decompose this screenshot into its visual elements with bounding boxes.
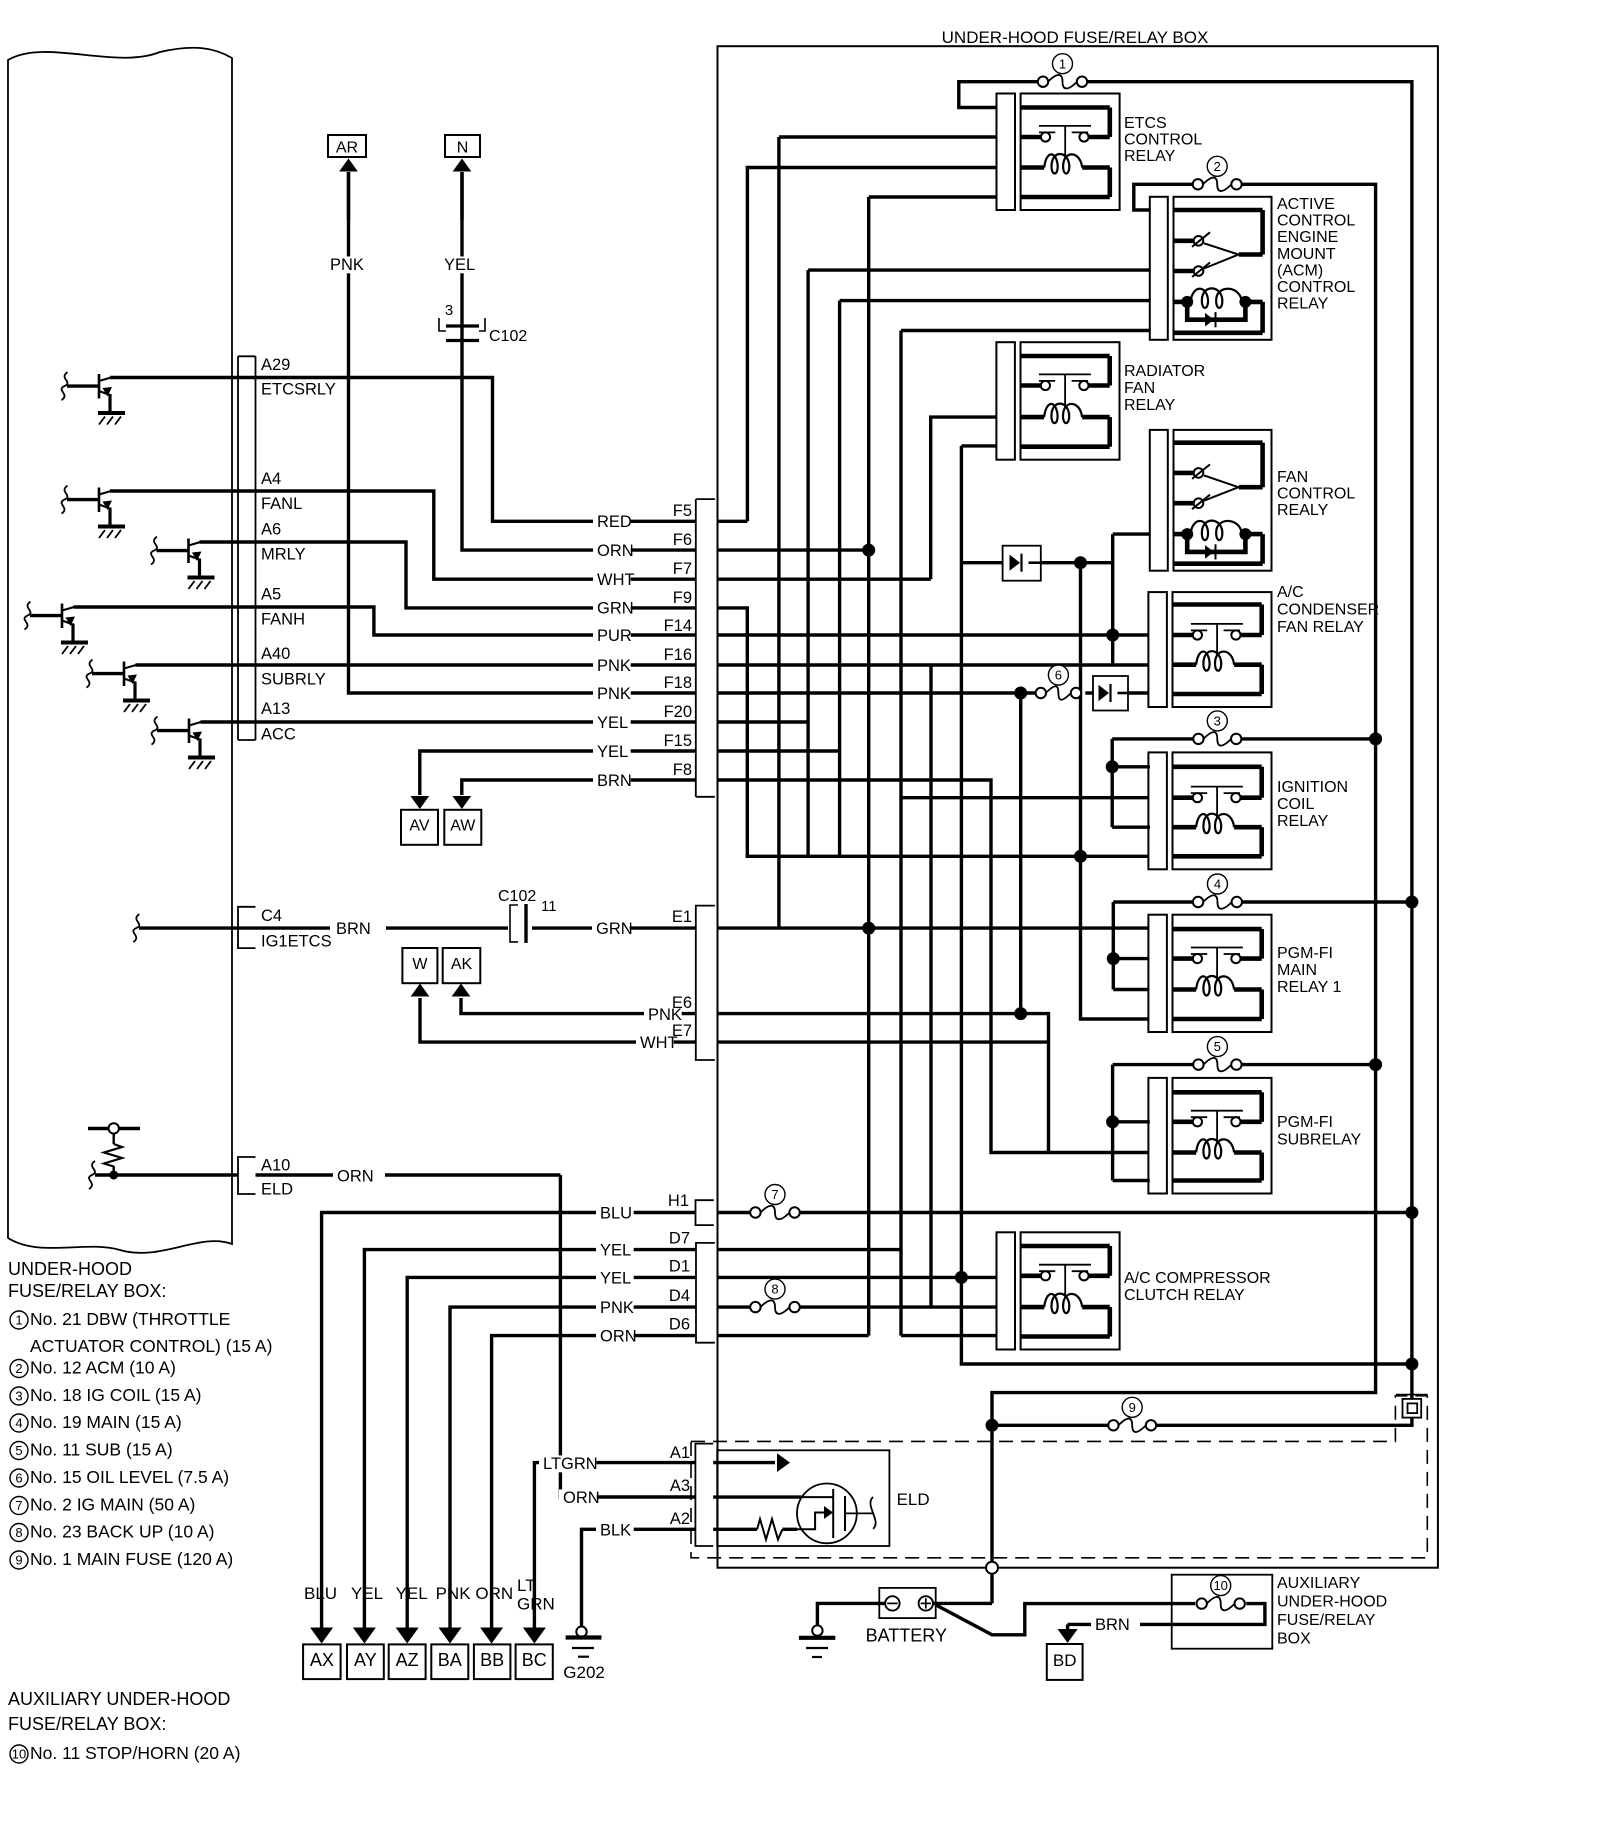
svg-text:BLU: BLU [600, 1205, 632, 1223]
fuse 6 No.15 OIL LEVEL [1046, 686, 1071, 700]
D connector bracket [696, 1243, 715, 1343]
connector BD box [1047, 1644, 1083, 1680]
vertical ACM terminal 4 feed [838, 301, 841, 857]
relay U3 RADIATOR FAN RELAY [996, 342, 1015, 460]
svg-text:BA: BA [438, 1650, 462, 1670]
svg-text:D4: D4 [669, 1287, 690, 1305]
wire colour BRN (BD) [1091, 1616, 1129, 1633]
AUXILIARY UNDER-HOOD FUSE/RELAY BOX [1172, 1575, 1273, 1649]
svg-text:8: 8 [15, 1525, 22, 1540]
wire fuse5 row [1113, 1063, 1194, 1066]
svg-text:A/C COMPRESSOR: A/C COMPRESSOR [1124, 1270, 1271, 1287]
ELD A1 arrow wire [713, 1461, 775, 1464]
svg-text:IGNITION: IGNITION [1277, 779, 1348, 796]
wire F20 into box [718, 720, 809, 723]
diode row from radiator relay [961, 561, 1002, 564]
svg-text:CONTROL: CONTROL [1277, 486, 1355, 503]
wire F18 to fuse 6 and diode [718, 691, 1041, 694]
svg-text:9: 9 [1129, 1400, 1136, 1415]
svg-text:BOX: BOX [1277, 1631, 1311, 1648]
svg-text:PUR: PUR [597, 627, 632, 645]
svg-text:RELAY: RELAY [1277, 296, 1329, 313]
wire D7 to vertical [718, 1248, 902, 1251]
svg-text:RELAY 1: RELAY 1 [1277, 979, 1341, 996]
svg-text:ORN: ORN [475, 1584, 513, 1603]
svg-text:AV: AV [409, 818, 429, 835]
UNDER-HOOD FUSE/RELAY BOX outline [718, 46, 1438, 1568]
ELD A3 wire [713, 1495, 801, 1498]
battery [879, 1588, 935, 1618]
wire F8 to PGM-FI subrelay coil [718, 780, 1149, 1153]
junction [862, 544, 875, 557]
wire colour PNK (AR) [326, 256, 364, 273]
svg-text:ORN: ORN [337, 1168, 374, 1186]
wire A10/ELD ORN to A3 [89, 1161, 95, 1189]
junction [1405, 1358, 1418, 1371]
svg-text:FUSE/RELAY BOX:: FUSE/RELAY BOX: [8, 1281, 166, 1301]
junction [1106, 1115, 1119, 1128]
svg-text:5: 5 [1214, 1039, 1221, 1054]
connector BA box [431, 1644, 468, 1679]
wire colour ORN (A10) [333, 1168, 371, 1185]
svg-text:AUXILIARY: AUXILIARY [1277, 1575, 1361, 1592]
wire D1 to A/C compressor clutch relay contact [718, 1276, 997, 1279]
svg-text:YEL: YEL [597, 743, 628, 761]
wire colour WHT [593, 571, 631, 588]
svg-text:RED: RED [597, 513, 632, 531]
svg-text:FANL: FANL [261, 495, 302, 513]
svg-text:No. 12 ACM (10 A): No. 12 ACM (10 A) [30, 1358, 176, 1378]
svg-text:3: 3 [445, 302, 453, 319]
svg-text:YEL: YEL [600, 1242, 631, 1260]
wire colour BRN [593, 772, 631, 789]
wire E7 to subrelay coil node [718, 1040, 1049, 1043]
ELD sensor resistor circuit [88, 1127, 140, 1130]
svg-text:BRN: BRN [597, 772, 632, 790]
svg-text:10: 10 [12, 1747, 26, 1762]
wire colour ORN [593, 542, 631, 559]
wire colour PNK [593, 685, 631, 702]
fuse 4 No.19 MAIN [1203, 895, 1232, 909]
svg-text:D7: D7 [669, 1230, 690, 1248]
svg-text:YEL: YEL [396, 1584, 428, 1603]
svg-text:CONTROL: CONTROL [1277, 279, 1355, 296]
wire colour YEL (N) [440, 256, 478, 273]
relay U7 PGM-FI MAIN RELAY 1 [1148, 915, 1167, 1032]
vertical ETCS bottom chain [867, 197, 870, 1336]
wire D1 YEL column to AZ [407, 1277, 696, 1630]
wire colour WHT (E7) [636, 1034, 674, 1051]
junction [1369, 1058, 1382, 1071]
wire D6 to vertical [718, 1334, 869, 1337]
connector AR box [328, 135, 366, 157]
wire A40/SUBRLY to F16 PNK [136, 663, 696, 666]
wire colour ORN (D6) [596, 1328, 634, 1345]
svg-text:No. 21 DBW (THROTTLE: No. 21 DBW (THROTTLE [30, 1309, 230, 1329]
wire A29/ETCSRLY to F5 RED [110, 378, 696, 522]
svg-text:ACTUATOR CONTROL) (15 A): ACTUATOR CONTROL) (15 A) [30, 1336, 272, 1356]
svg-text:H1: H1 [668, 1192, 689, 1210]
fuse 3 No.18 IG COIL [1203, 732, 1231, 746]
svg-text:A3: A3 [670, 1477, 690, 1495]
wire E7 WHT to W [420, 998, 696, 1042]
wire colour GRN [593, 600, 631, 617]
svg-text:MRLY: MRLY [261, 546, 306, 564]
wire E6 PNK to AK [461, 998, 696, 1014]
svg-text:GRN: GRN [517, 1595, 555, 1614]
connector N box [445, 135, 480, 157]
svg-text:YEL: YEL [444, 256, 475, 274]
wire fuse9 row [992, 1424, 1109, 1427]
svg-text:RELAY: RELAY [1277, 813, 1329, 830]
dashed ELD boundary [691, 1396, 1427, 1558]
vertical ACM t5 chain down to compressor relay [899, 331, 902, 1336]
svg-text:W: W [412, 956, 428, 973]
svg-text:F7: F7 [673, 560, 692, 578]
svg-text:IG1ETCS: IG1ETCS [261, 933, 332, 951]
svg-text:F20: F20 [664, 703, 692, 721]
fuse 1 No.21 DBW [1048, 75, 1077, 89]
wire F16 to A/C condenser fan relay coil [718, 663, 1149, 666]
wire colour ORN (A3) [559, 1489, 597, 1506]
svg-text:LTGRN: LTGRN [543, 1455, 598, 1473]
main fuse connector square [1396, 1394, 1428, 1396]
svg-text:6: 6 [1055, 668, 1062, 683]
svg-text:AX: AX [310, 1650, 334, 1670]
wire F8 BRN to AW [462, 780, 696, 795]
svg-text:AY: AY [354, 1650, 377, 1670]
svg-text:BC: BC [522, 1650, 547, 1670]
svg-text:GRN: GRN [597, 600, 634, 618]
svg-text:4: 4 [15, 1416, 22, 1431]
svg-text:CONTROL: CONTROL [1124, 132, 1202, 149]
svg-text:ELD: ELD [261, 1181, 293, 1199]
wire battery plus to main node [933, 1602, 992, 1605]
svg-text:YEL: YEL [351, 1584, 383, 1603]
wire A4/FANL to F7 WHT [110, 491, 696, 579]
svg-text:BLK: BLK [600, 1522, 631, 1540]
relay U2 ACM CONTROL RELAY [1150, 197, 1168, 340]
white circle on box bottom [986, 1562, 998, 1574]
svg-text:PNK: PNK [597, 685, 631, 703]
svg-text:F5: F5 [673, 502, 692, 520]
wire fuse10 loop to BD [1140, 1604, 1265, 1625]
junction [955, 1271, 968, 1284]
connector AZ box [389, 1644, 426, 1679]
vertical F16/D4 PNK link [929, 665, 932, 1307]
svg-text:No. 1 MAIN FUSE (120 A): No. 1 MAIN FUSE (120 A) [30, 1549, 233, 1569]
svg-text:7: 7 [15, 1498, 22, 1513]
svg-text:1: 1 [1059, 56, 1066, 71]
svg-text:AUXILIARY UNDER-HOOD: AUXILIARY UNDER-HOOD [8, 1689, 230, 1709]
fuse 9 No.1 MAIN FUSE [1118, 1419, 1146, 1433]
svg-text:ORN: ORN [600, 1328, 637, 1346]
svg-text:1: 1 [15, 1313, 22, 1328]
wire colour RED [593, 513, 631, 530]
svg-text:F18: F18 [664, 674, 692, 692]
C4 bracket [238, 907, 256, 948]
svg-text:AK: AK [451, 956, 473, 973]
wire colour PNK (D4) [596, 1299, 634, 1316]
transistor Q4 (FANH driver) [25, 602, 31, 630]
connector W box [402, 948, 437, 983]
svg-text:3: 3 [15, 1389, 22, 1404]
wire colour YEL [593, 714, 631, 731]
wire A13/ACC to F20 YEL [201, 720, 696, 723]
svg-text:AW: AW [450, 818, 476, 835]
F connector bracket [695, 499, 697, 797]
transistor Q6 (ACC driver) [152, 717, 158, 745]
svg-text:No. 11 SUB (15 A): No. 11 SUB (15 A) [30, 1440, 173, 1460]
junction [1405, 1206, 1418, 1219]
vertical diode junction to relay returns [1081, 563, 1150, 1019]
wire battery minus to ground [817, 1603, 885, 1625]
wire A2 BLK to G202 [582, 1529, 696, 1626]
wire F5 to ETCS coil [718, 520, 748, 523]
svg-text:No. 2 IG MAIN (50 A): No. 2 IG MAIN (50 A) [30, 1495, 195, 1515]
A10 bracket [238, 1157, 256, 1194]
svg-text:11: 11 [541, 898, 557, 915]
junction [1014, 687, 1027, 700]
ELD box [717, 1450, 889, 1546]
fuse 10 No.11 STOP/HORN [1207, 1597, 1235, 1611]
svg-text:RELAY: RELAY [1124, 148, 1176, 165]
svg-text:FAN RELAY: FAN RELAY [1277, 619, 1364, 636]
svg-text:G202: G202 [563, 1663, 605, 1682]
connector AK box [443, 948, 481, 983]
fuse4 feed chain [1112, 902, 1115, 990]
diode D2 (oil level fuse) [1093, 676, 1128, 711]
connector AY box [347, 1644, 384, 1679]
junction [1369, 732, 1382, 745]
ECM/PCM box [8, 48, 232, 1253]
svg-text:E6: E6 [672, 994, 692, 1012]
diode D1 (radiator chain) [1003, 546, 1041, 581]
svg-text:No. 18 IG COIL (15 A): No. 18 IG COIL (15 A) [30, 1385, 202, 1405]
relay U6 IGNITION COIL RELAY [1148, 752, 1167, 869]
vertical ETCS contact feed [777, 137, 780, 928]
svg-text:C102: C102 [498, 888, 536, 905]
svg-text:UNDER-HOOD: UNDER-HOOD [8, 1259, 132, 1279]
vertical ACM terminal 3 feed [806, 270, 809, 856]
wire fuse4 row [1113, 900, 1193, 903]
svg-text:10: 10 [1213, 1578, 1227, 1593]
wire A5/FANH to F14 PUR [74, 607, 696, 635]
wire colour BRN [332, 920, 370, 937]
wire H1 BLU column to AX [322, 1213, 696, 1631]
A connector bracket [695, 1444, 713, 1546]
wire N vertical YEL to F6 ORN [462, 172, 696, 550]
wire A1 LTGRN column to BC [534, 1463, 695, 1630]
transistor Q2 (FANL driver) [62, 486, 68, 514]
svg-text:F14: F14 [664, 617, 692, 635]
wire F7 to radiator fan relay coil [718, 578, 931, 581]
svg-text:FANH: FANH [261, 611, 305, 629]
svg-text:PGM-FI: PGM-FI [1277, 945, 1333, 962]
wire A6/MRLY to F9 GRN [200, 542, 696, 608]
svg-text:MAIN: MAIN [1277, 962, 1317, 979]
svg-text:No. 15 OIL LEVEL (7.5 A): No. 15 OIL LEVEL (7.5 A) [30, 1467, 229, 1487]
svg-text:COIL: COIL [1277, 796, 1314, 813]
wire F6 to junction [718, 548, 869, 551]
E connector bracket [696, 906, 715, 1060]
transistor Q3 (MRLY driver) [151, 537, 157, 565]
svg-text:A2: A2 [670, 1510, 690, 1528]
wire F14 to A/C condenser fan relay contact [718, 633, 1149, 636]
wire fuse1 to ETCS relay [959, 82, 1038, 108]
wire colour PNK [593, 657, 631, 674]
svg-text:PNK: PNK [600, 1299, 634, 1317]
ELD transistor circle [797, 1484, 857, 1544]
ground G202 [576, 1627, 586, 1637]
wire H1 row with fuse 7 to main bus [718, 1211, 751, 1214]
relay U8 PGM-FI SUBRELAY [1148, 1078, 1167, 1194]
connector AX box [303, 1644, 341, 1679]
svg-text:A1: A1 [670, 1444, 690, 1462]
wire colour YEL (D7) [596, 1242, 634, 1259]
svg-text:BLU: BLU [304, 1584, 337, 1603]
connector AW box [444, 810, 481, 845]
svg-text:AZ: AZ [396, 1650, 419, 1670]
svg-text:3: 3 [1214, 714, 1221, 729]
svg-text:No. 11 STOP/HORN (20 A): No. 11 STOP/HORN (20 A) [30, 1743, 240, 1763]
wire fuse3 row [1112, 737, 1193, 740]
svg-text:N: N [457, 140, 469, 157]
connector C102 pin 11 [510, 905, 518, 942]
svg-text:C4: C4 [261, 907, 282, 925]
wire AR vertical PNK to F18 [349, 172, 696, 693]
svg-text:6: 6 [15, 1471, 22, 1486]
svg-text:ETCSRLY: ETCSRLY [261, 381, 336, 399]
wire colour GRN [592, 920, 630, 937]
svg-text:F15: F15 [664, 732, 692, 750]
vertical F18/E6 PNK link [1019, 693, 1022, 1014]
svg-text:WHT: WHT [597, 571, 635, 589]
svg-text:E7: E7 [672, 1022, 692, 1040]
ELD A2 wire with resistor [713, 1528, 757, 1531]
connector BC box [516, 1644, 553, 1679]
svg-text:FUSE/RELAY: FUSE/RELAY [1277, 1612, 1376, 1629]
vertical fan control coil chain [1111, 534, 1114, 665]
svg-text:No. 19 MAIN (15 A): No. 19 MAIN (15 A) [30, 1412, 182, 1432]
ground (battery) G [812, 1625, 822, 1635]
svg-text:PNK: PNK [597, 657, 631, 675]
svg-text:9: 9 [15, 1553, 22, 1568]
legend list [10, 1311, 28, 1329]
fuse 7 No.2 IG MAIN [760, 1206, 789, 1220]
svg-text:PNK: PNK [330, 256, 364, 274]
svg-text:MOUNT: MOUNT [1277, 246, 1336, 263]
svg-text:BB: BB [480, 1650, 504, 1670]
svg-text:ACTIVE: ACTIVE [1277, 196, 1335, 213]
wire colour BLK (A2) [596, 1522, 634, 1539]
wire D7 YEL column to AY [364, 1250, 696, 1630]
svg-text:A10: A10 [261, 1157, 290, 1175]
wire battery to BRN feed [936, 1604, 1195, 1635]
svg-text:BRN: BRN [336, 920, 371, 938]
svg-text:SUBRELAY: SUBRELAY [1277, 1132, 1362, 1149]
svg-text:A29: A29 [261, 356, 290, 374]
svg-text:4: 4 [1214, 877, 1221, 892]
fuse 8 No.23 BACK UP [760, 1300, 789, 1314]
wire D4 with fuse 8 to A/C compressor clutch coil [718, 1305, 751, 1308]
svg-text:ELD: ELD [897, 1490, 930, 1509]
svg-text:D6: D6 [669, 1316, 690, 1334]
svg-text:LT: LT [517, 1576, 536, 1595]
svg-text:C102: C102 [489, 328, 527, 345]
relay U4 FAN CONTROL RELAY [1150, 430, 1168, 571]
svg-text:ETCS: ETCS [1124, 115, 1167, 132]
wire to A/C compressor clutch relay bottom [901, 1334, 997, 1337]
svg-text:BATTERY: BATTERY [866, 1626, 947, 1646]
junction [1106, 760, 1119, 773]
relay U5 A/C CONDENSER FAN RELAY [1148, 592, 1167, 707]
vertical radiator t4 chain [961, 446, 1412, 1364]
svg-text:CONDENSER: CONDENSER [1277, 602, 1379, 619]
junction [1107, 952, 1120, 965]
relay U9 A/C COMPRESSOR CLUTCH RELAY [997, 1232, 1016, 1349]
svg-text:F16: F16 [664, 646, 692, 664]
svg-text:8: 8 [771, 1282, 778, 1297]
svg-text:FAN: FAN [1124, 380, 1155, 397]
junction [1106, 629, 1119, 642]
svg-text:ENGINE: ENGINE [1277, 229, 1338, 246]
junction [1405, 896, 1418, 909]
fuse5 feed chain [1111, 1065, 1114, 1181]
svg-text:D1: D1 [669, 1258, 690, 1276]
wire colour YEL [593, 743, 631, 760]
svg-text:ORN: ORN [563, 1489, 600, 1507]
wire F15 into box [718, 749, 840, 752]
svg-text:REALY: REALY [1277, 502, 1329, 519]
svg-text:SUBRLY: SUBRLY [261, 671, 326, 689]
junction [1074, 850, 1087, 863]
svg-text:A13: A13 [261, 700, 290, 718]
svg-text:YEL: YEL [600, 1270, 631, 1288]
svg-text:CONTROL: CONTROL [1277, 213, 1355, 230]
svg-text:UNDER-HOOD FUSE/RELAY BOX: UNDER-HOOD FUSE/RELAY BOX [942, 28, 1209, 47]
svg-text:2: 2 [1214, 159, 1221, 174]
svg-text:FAN: FAN [1277, 469, 1308, 486]
svg-text:RELAY: RELAY [1124, 397, 1176, 414]
ECM connector channel [238, 355, 256, 357]
svg-text:E1: E1 [672, 908, 692, 926]
connector AV box [401, 810, 438, 845]
svg-text:RADIATOR: RADIATOR [1124, 363, 1205, 380]
main bus from fuse 1 [1087, 82, 1412, 1399]
svg-text:F9: F9 [673, 589, 692, 607]
svg-text:(ACM): (ACM) [1277, 262, 1323, 279]
wire colour BLU (H1) [596, 1205, 634, 1222]
wire F9 down to ignition coil relay row [718, 608, 1149, 856]
fuse3 feed chain [1110, 739, 1113, 827]
svg-text:5: 5 [15, 1443, 22, 1458]
transistor Q1 (ETCSRLY driver) [62, 372, 68, 400]
fuse 2 No.12 ACM [1203, 178, 1232, 192]
svg-text:A6: A6 [261, 521, 281, 539]
junction [1074, 556, 1087, 569]
svg-text:CLUTCH RELAY: CLUTCH RELAY [1124, 1287, 1245, 1304]
wire F15 YEL to AV [420, 751, 696, 795]
svg-text:BD: BD [1053, 1651, 1077, 1670]
svg-text:AR: AR [336, 140, 358, 157]
svg-text:A4: A4 [261, 470, 281, 488]
wire D6 ORN column to BB [492, 1336, 696, 1630]
connector BB box [474, 1644, 511, 1679]
svg-text:UNDER-HOOD: UNDER-HOOD [1277, 1594, 1387, 1611]
bus from fuse 2 [992, 184, 1376, 1567]
svg-text:A40: A40 [261, 645, 290, 663]
